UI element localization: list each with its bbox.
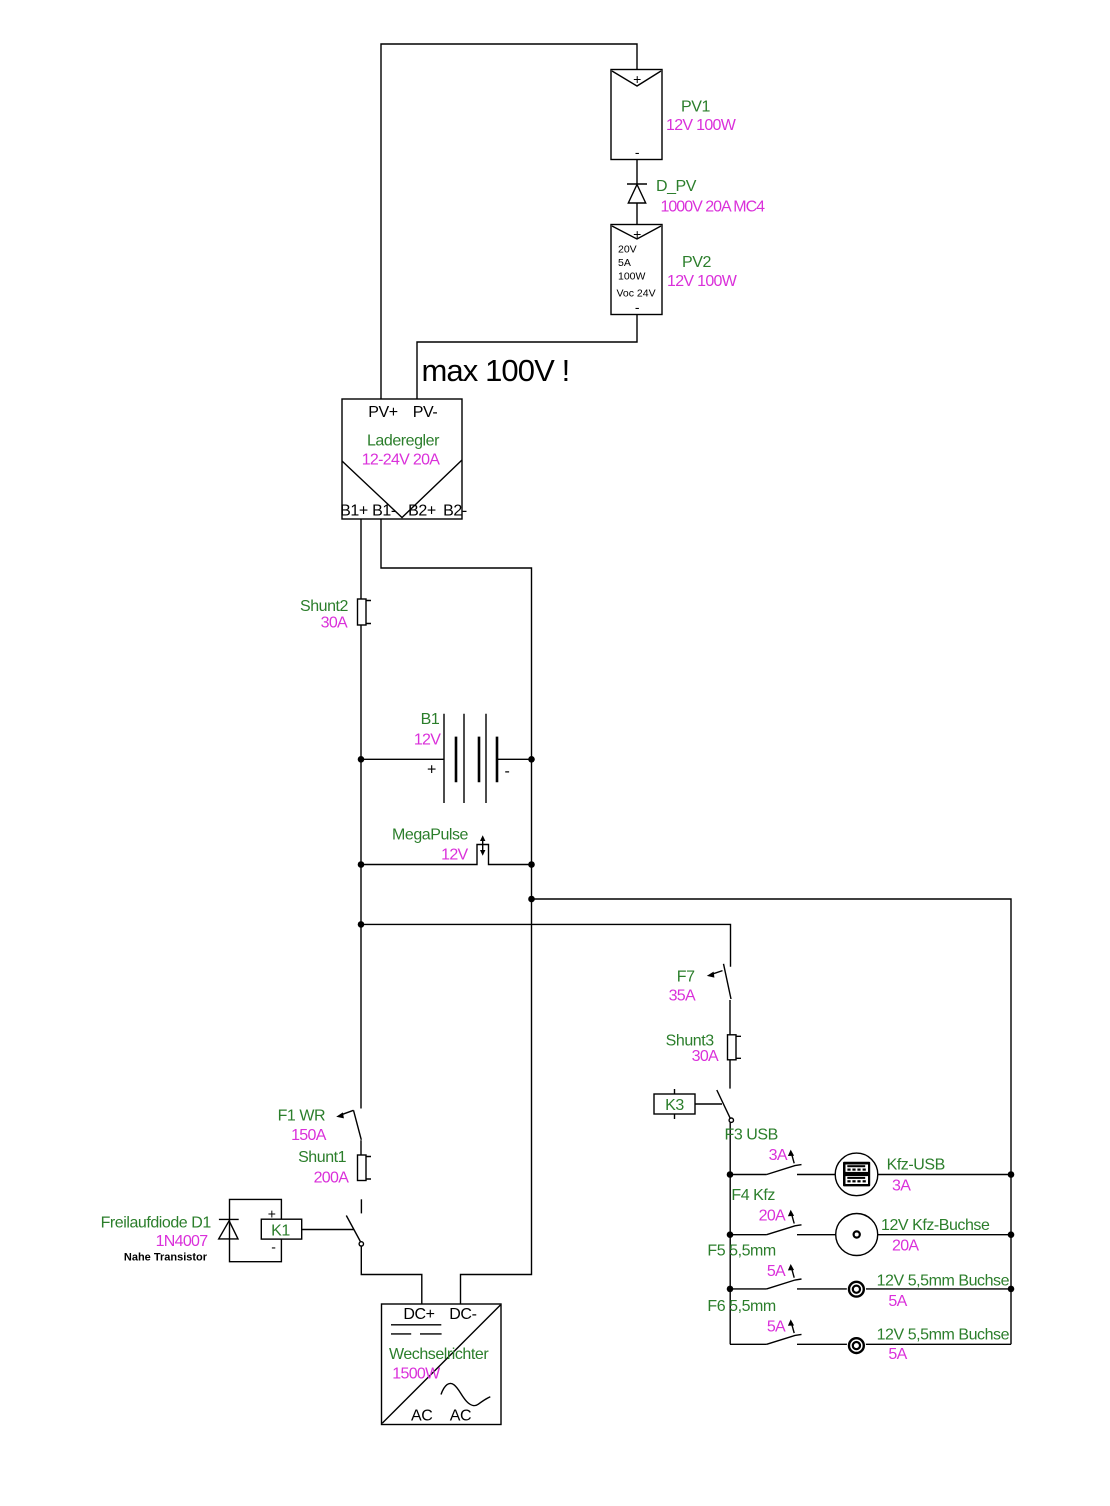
svg-text:1500W: 1500W (392, 1366, 441, 1383)
svg-text:Wechselrichter: Wechselrichter (389, 1346, 489, 1363)
svg-text:5A: 5A (888, 1346, 907, 1363)
svg-text:12V 100W: 12V 100W (666, 117, 737, 134)
svg-text:Nahe Transistor: Nahe Transistor (124, 1252, 208, 1264)
svg-text:DC+: DC+ (403, 1306, 434, 1323)
svg-text:F7: F7 (677, 968, 695, 985)
svg-text:max 100V !: max 100V ! (422, 353, 570, 388)
svg-text:B1+: B1+ (340, 503, 368, 520)
svg-text:K1: K1 (271, 1222, 290, 1239)
svg-text:Shunt3: Shunt3 (666, 1032, 715, 1049)
svg-text:5A: 5A (767, 1263, 786, 1280)
svg-text:+: + (268, 1205, 276, 1221)
svg-text:20A: 20A (759, 1208, 786, 1225)
svg-text:20A: 20A (892, 1238, 919, 1255)
svg-text:B1-: B1- (372, 503, 396, 520)
svg-text:F1 WR: F1 WR (278, 1108, 326, 1125)
svg-text:PV-: PV- (413, 404, 438, 421)
svg-text:12V: 12V (414, 732, 441, 749)
svg-text:Freilaufdiode D1: Freilaufdiode D1 (101, 1215, 212, 1232)
svg-text:AC: AC (450, 1408, 471, 1425)
svg-text:K3: K3 (665, 1097, 684, 1114)
svg-text:D_PV: D_PV (656, 178, 697, 195)
svg-text:Voc 24V: Voc 24V (617, 288, 656, 300)
svg-text:DC-: DC- (449, 1306, 476, 1323)
svg-text:100W: 100W (618, 271, 646, 283)
svg-text:20V: 20V (618, 244, 637, 256)
svg-text:5A: 5A (618, 257, 631, 269)
svg-text:-: - (271, 1239, 276, 1255)
svg-text:B1: B1 (421, 711, 440, 728)
svg-text:PV1: PV1 (681, 99, 710, 116)
svg-text:B2+: B2+ (408, 503, 436, 520)
svg-text:Laderegler: Laderegler (367, 433, 440, 450)
svg-text:12V 5,5mm Buchse: 12V 5,5mm Buchse (877, 1272, 1010, 1289)
svg-text:30A: 30A (321, 615, 348, 632)
svg-text:150A: 150A (291, 1127, 327, 1144)
svg-text:PV2: PV2 (682, 254, 711, 271)
svg-text:3A: 3A (769, 1147, 788, 1164)
svg-text:-: - (635, 144, 640, 160)
svg-text:12V 5,5mm Buchse: 12V 5,5mm Buchse (877, 1327, 1010, 1344)
svg-text:AC: AC (411, 1408, 432, 1425)
svg-text:F4 Kfz: F4 Kfz (731, 1187, 775, 1204)
svg-text:12V: 12V (441, 847, 468, 864)
svg-text:12-24V 20A: 12-24V 20A (362, 452, 441, 469)
svg-text:B2-: B2- (443, 503, 467, 520)
svg-text:3A: 3A (892, 1177, 911, 1194)
svg-text:5A: 5A (888, 1293, 907, 1310)
svg-text:Shunt1: Shunt1 (298, 1149, 347, 1166)
svg-text:1000V 20A MC4: 1000V 20A MC4 (661, 199, 766, 216)
svg-text:-: - (635, 299, 640, 315)
svg-text:30A: 30A (692, 1048, 719, 1065)
svg-text:1N4007: 1N4007 (156, 1233, 209, 1250)
svg-text:+: + (633, 226, 641, 242)
svg-text:12V 100W: 12V 100W (667, 273, 738, 290)
svg-text:PV+: PV+ (368, 404, 398, 421)
svg-text:Shunt2: Shunt2 (300, 598, 349, 615)
svg-text:Kfz-USB: Kfz-USB (887, 1157, 945, 1174)
svg-text:F5 5,5mm: F5 5,5mm (707, 1243, 776, 1260)
svg-text:F3 USB: F3 USB (725, 1127, 778, 1144)
svg-text:+: + (633, 71, 641, 87)
svg-text:F6 5,5mm: F6 5,5mm (707, 1298, 776, 1315)
svg-text:200A: 200A (314, 1169, 350, 1186)
svg-text:+: + (427, 762, 436, 779)
svg-text:35A: 35A (669, 987, 696, 1004)
svg-text:5A: 5A (767, 1318, 786, 1335)
svg-text:MegaPulse: MegaPulse (392, 827, 469, 844)
svg-text:-: - (505, 763, 510, 780)
svg-text:12V Kfz-Buchse: 12V Kfz-Buchse (881, 1217, 990, 1234)
